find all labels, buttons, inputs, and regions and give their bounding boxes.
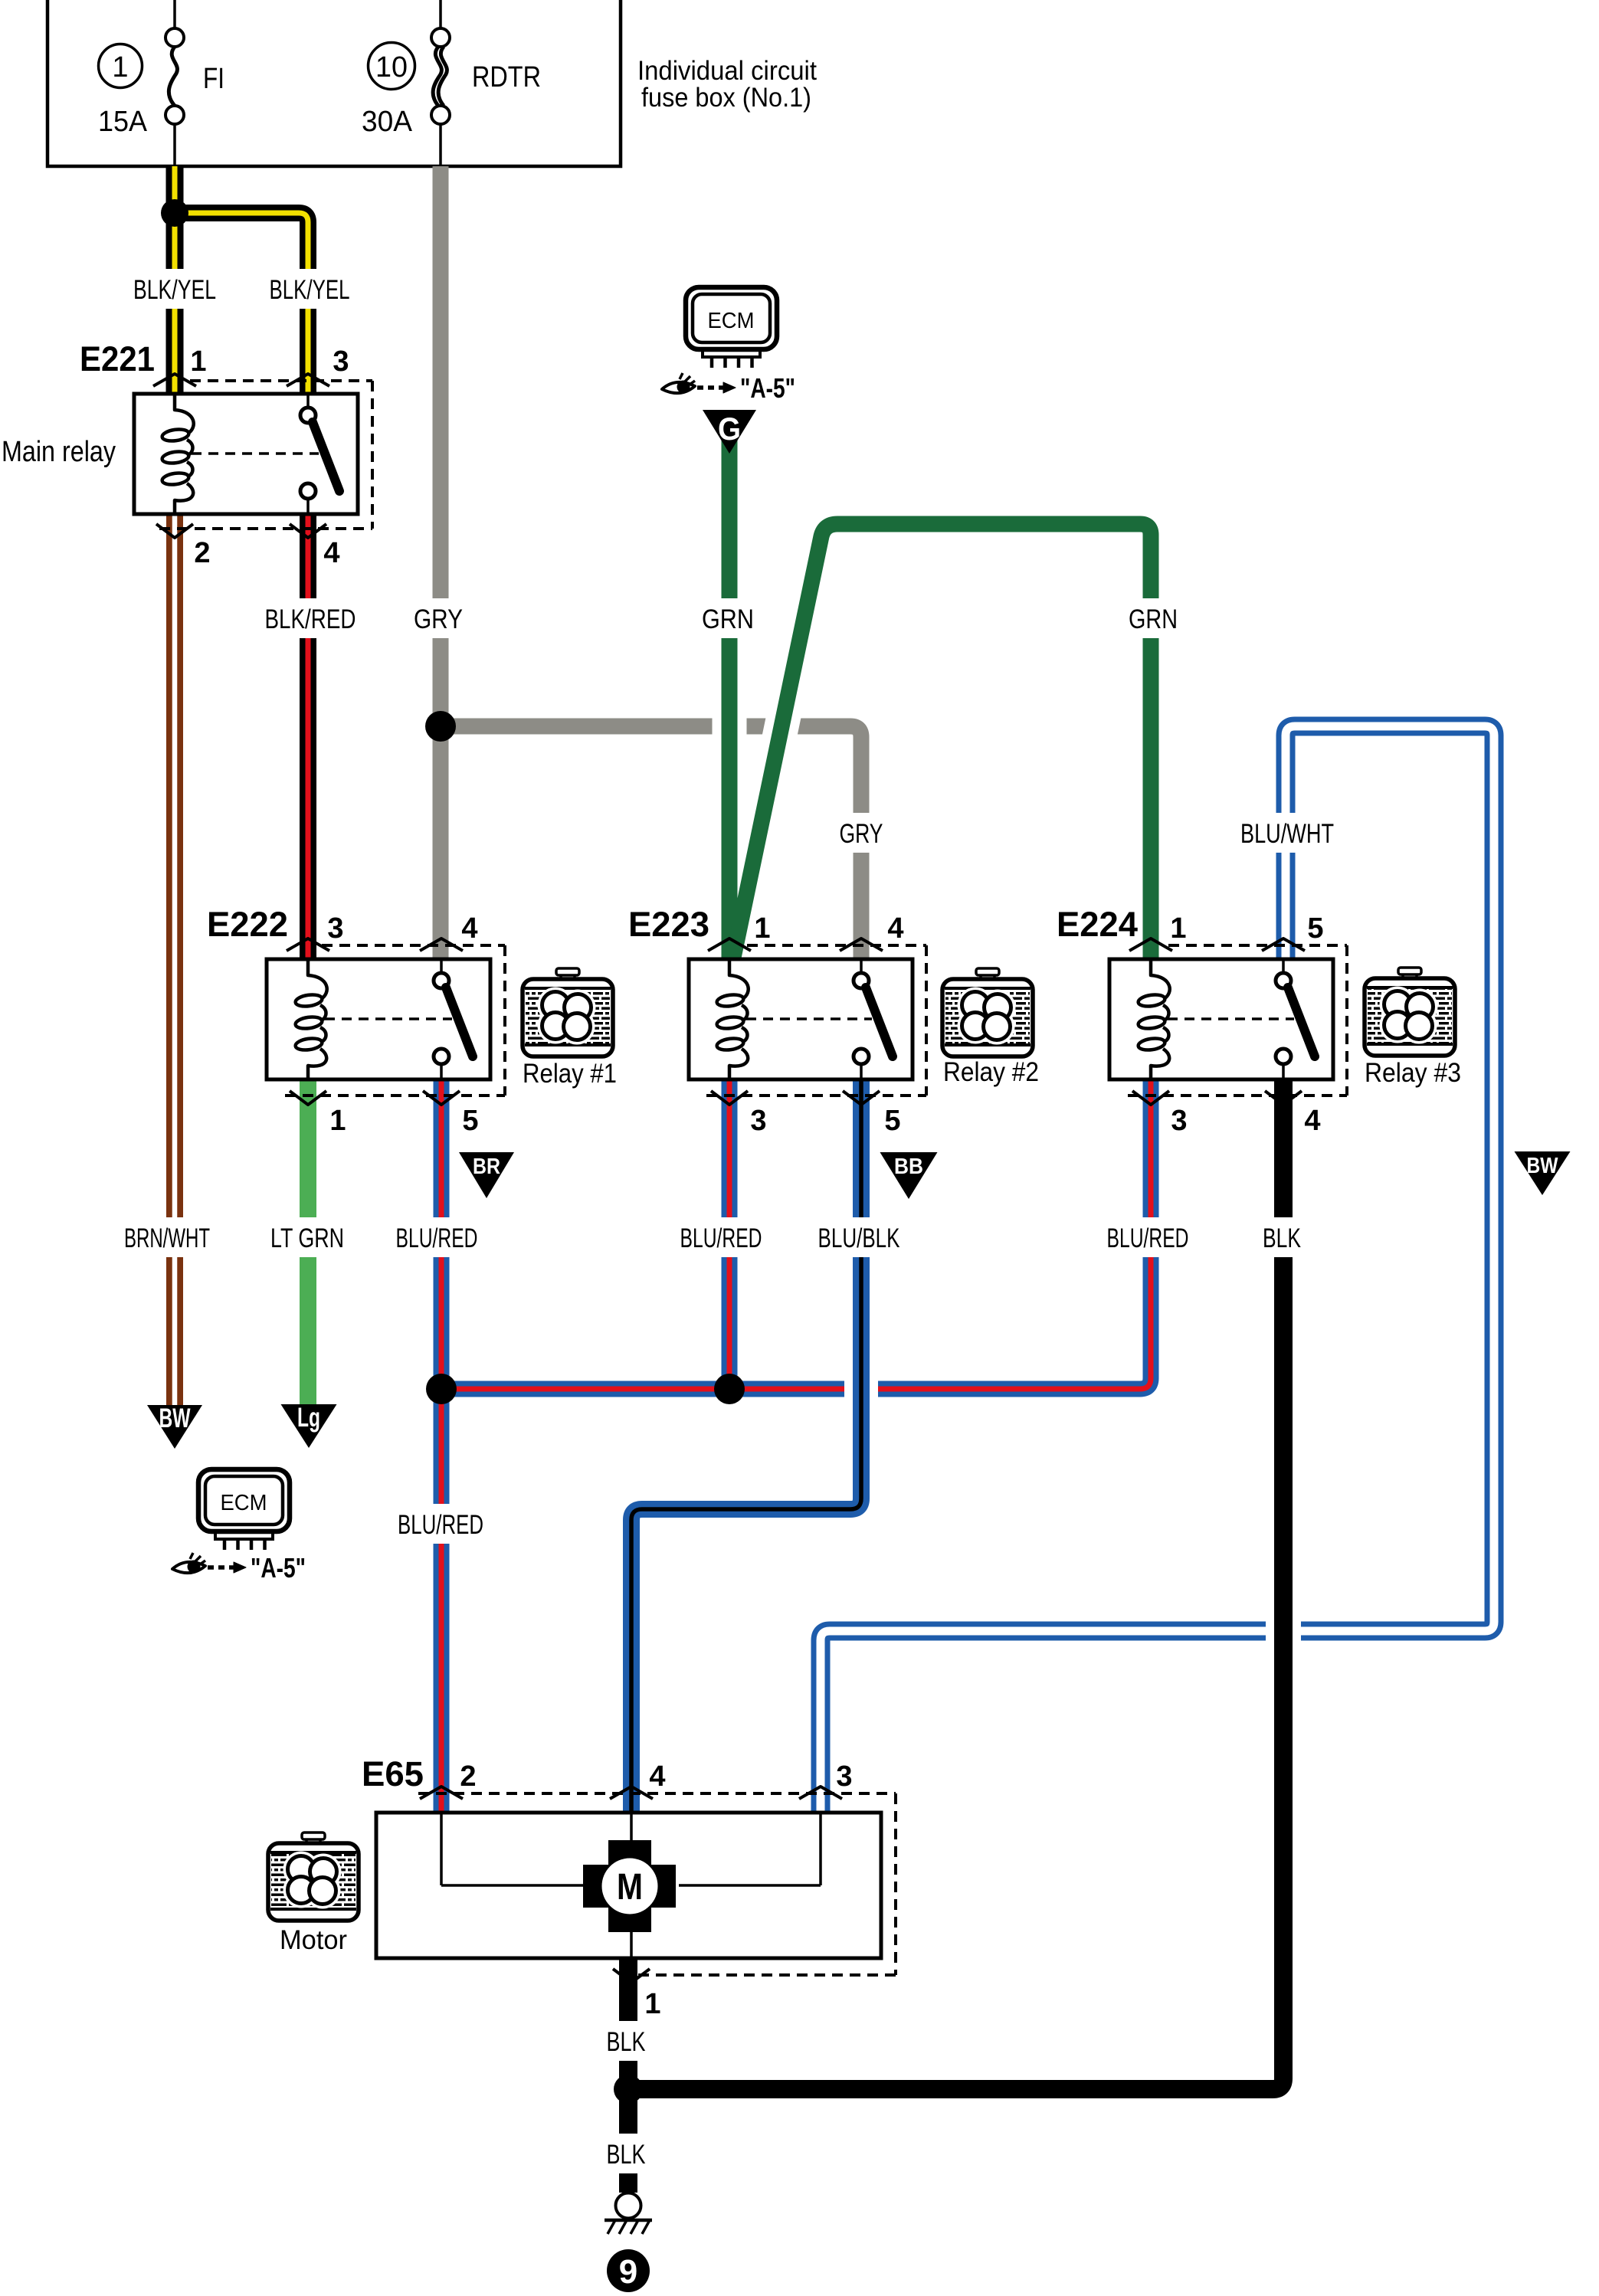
svg-text:Lg: Lg	[297, 1403, 320, 1433]
svg-text:9: 9	[619, 2253, 637, 2291]
svg-text:30A: 30A	[362, 106, 413, 138]
svg-text:2: 2	[460, 1760, 476, 1793]
svg-text:BLU/WHT: BLU/WHT	[1240, 819, 1334, 849]
svg-text:BLU/RED: BLU/RED	[1107, 1223, 1189, 1253]
svg-text:1: 1	[329, 1105, 346, 1137]
svg-text:1: 1	[754, 912, 770, 945]
svg-text:RDTR: RDTR	[472, 61, 541, 93]
svg-text:5: 5	[462, 1105, 478, 1137]
svg-text:GRY: GRY	[840, 819, 883, 849]
svg-text:2: 2	[194, 537, 210, 569]
svg-text:fuse box (No.1): fuse box (No.1)	[641, 83, 811, 113]
svg-text:1: 1	[1170, 912, 1186, 945]
svg-text:BR: BR	[473, 1155, 500, 1179]
svg-text:4: 4	[649, 1760, 665, 1793]
svg-text:M: M	[617, 1867, 643, 1908]
svg-text:E224: E224	[1057, 905, 1138, 944]
svg-text:E65: E65	[362, 1754, 424, 1793]
svg-text:3: 3	[750, 1105, 766, 1137]
svg-text:15A: 15A	[98, 106, 148, 138]
svg-text:BLK: BLK	[607, 2027, 646, 2057]
svg-text:"A-5": "A-5"	[740, 372, 795, 404]
svg-text:FI: FI	[203, 63, 224, 95]
svg-text:BLU/BLK: BLU/BLK	[818, 1223, 900, 1253]
svg-text:G: G	[718, 411, 741, 447]
svg-text:BLU/RED: BLU/RED	[396, 1223, 478, 1253]
svg-text:E221: E221	[80, 339, 155, 378]
svg-text:BB: BB	[894, 1155, 923, 1179]
svg-text:4: 4	[1304, 1105, 1320, 1137]
svg-text:5: 5	[884, 1105, 900, 1137]
svg-text:BLU/RED: BLU/RED	[680, 1223, 762, 1253]
svg-text:Main relay: Main relay	[2, 436, 116, 468]
svg-text:BLK: BLK	[1263, 1223, 1301, 1253]
svg-text:BW: BW	[159, 1403, 191, 1433]
svg-text:GRN: GRN	[702, 604, 754, 634]
svg-text:E222: E222	[207, 905, 288, 944]
svg-text:4: 4	[323, 537, 339, 569]
svg-text:BLU/RED: BLU/RED	[398, 1510, 483, 1540]
svg-text:3: 3	[836, 1760, 852, 1793]
svg-text:"A-5": "A-5"	[251, 1552, 306, 1584]
svg-text:1: 1	[190, 346, 206, 378]
svg-text:Individual circuit: Individual circuit	[637, 56, 817, 86]
svg-text:Relay #3: Relay #3	[1365, 1058, 1461, 1088]
svg-text:BRN/WHT: BRN/WHT	[124, 1223, 210, 1253]
svg-text:4: 4	[887, 912, 903, 945]
svg-text:Relay #2: Relay #2	[943, 1057, 1039, 1087]
svg-text:3: 3	[327, 912, 343, 945]
svg-text:1: 1	[112, 51, 128, 84]
svg-text:GRY: GRY	[414, 604, 463, 634]
svg-text:Relay #1: Relay #1	[523, 1059, 617, 1089]
svg-text:BLK: BLK	[607, 2140, 646, 2170]
svg-text:ECM: ECM	[708, 309, 755, 333]
svg-text:ECM: ECM	[221, 1491, 267, 1515]
svg-text:5: 5	[1307, 912, 1323, 945]
svg-text:LT GRN: LT GRN	[270, 1223, 344, 1253]
svg-text:BLK/YEL: BLK/YEL	[133, 275, 216, 305]
svg-text:3: 3	[333, 346, 349, 378]
svg-text:BW: BW	[1527, 1154, 1559, 1178]
svg-text:E223: E223	[628, 905, 709, 944]
svg-text:3: 3	[1171, 1105, 1187, 1137]
svg-text:1: 1	[644, 1988, 660, 2020]
svg-text:10: 10	[375, 51, 408, 84]
svg-text:4: 4	[461, 912, 477, 945]
svg-text:BLK/YEL: BLK/YEL	[270, 275, 350, 305]
svg-text:BLK/RED: BLK/RED	[265, 604, 356, 634]
svg-text:Motor: Motor	[280, 1925, 347, 1955]
svg-text:GRN: GRN	[1129, 604, 1178, 634]
